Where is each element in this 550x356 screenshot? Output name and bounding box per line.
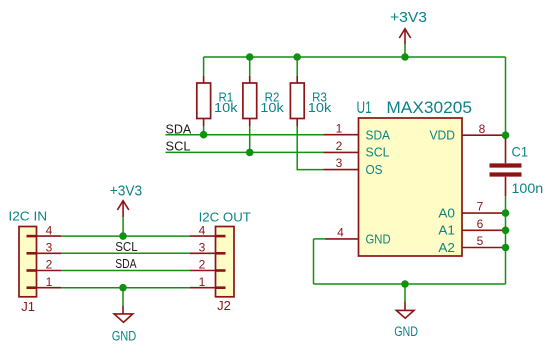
pin 7 A0 of U1 (438, 200, 505, 221)
pin 5 A2 of U1 (438, 234, 505, 255)
svg-text:C1: C1 (512, 144, 529, 160)
wire VDD top rail (204, 56, 506, 58)
connector J1 (8, 210, 47, 314)
svg-text:VDD: VDD (430, 128, 456, 142)
resistor R3 (290, 83, 332, 126)
connector J2 (199, 210, 252, 313)
svg-text:10k: 10k (214, 101, 238, 115)
power +3V3 left (110, 183, 142, 236)
svg-text:1: 1 (336, 122, 343, 136)
ground symbol left (112, 288, 137, 344)
pin 1 SDA of U1 (324, 122, 391, 143)
wire SCL (166, 151, 324, 153)
svg-text:100n: 100n (512, 180, 544, 196)
pin 4 GND of U1 (325, 226, 391, 247)
node junction A2 (502, 244, 510, 252)
pin 8 VDD of U1 (430, 122, 506, 142)
svg-text:1: 1 (46, 275, 53, 289)
svg-text:+3V3: +3V3 (110, 183, 142, 199)
node junction A0 (502, 209, 510, 217)
svg-text:A2: A2 (438, 241, 455, 255)
svg-text:U1: U1 (357, 99, 372, 117)
svg-text:A0: A0 (438, 207, 455, 221)
svg-text:6: 6 (477, 217, 484, 231)
pin 2 of J2 (190, 258, 216, 272)
wire bus 3 J1-J2 (61, 252, 190, 254)
svg-text:SCL: SCL (166, 140, 191, 154)
pin 1 of J1 (37, 275, 62, 289)
svg-text:2: 2 (46, 258, 53, 272)
node junction GND J bus (119, 284, 127, 292)
wire bus 2 J1-J2 (61, 270, 190, 272)
wire R2 top drop (249, 57, 251, 83)
svg-text:MAX30205: MAX30205 (386, 99, 472, 117)
svg-text:SDA: SDA (115, 257, 137, 271)
op-amp U1 MAX30205 body (357, 99, 473, 256)
svg-text:10k: 10k (308, 101, 332, 115)
wire bus 4 J1-J2 (61, 235, 190, 237)
node junction A1 (502, 227, 510, 235)
resistor R1 (197, 83, 239, 126)
node junction bottom GND (401, 280, 409, 288)
svg-text:4: 4 (46, 223, 53, 237)
svg-text:GND: GND (394, 324, 418, 339)
wire R3 top drop (296, 57, 298, 83)
wire SDA (166, 134, 324, 136)
svg-text:SCL: SCL (366, 146, 390, 160)
svg-text:A1: A1 (438, 224, 455, 238)
wire bus 1 J1-J2 (61, 287, 190, 289)
svg-text:7: 7 (477, 200, 484, 214)
svg-text:1: 1 (199, 275, 206, 289)
svg-text:OS: OS (366, 163, 383, 177)
pin 6 A1 of U1 (438, 217, 505, 238)
pin 2 of J1 (37, 258, 62, 272)
svg-text:GND: GND (366, 233, 391, 247)
node junction +3V3 J bus (119, 232, 127, 240)
pin 3 of J1 (37, 241, 62, 255)
wire R1 top drop (203, 57, 205, 83)
svg-text:SDA: SDA (366, 128, 391, 142)
svg-text:2: 2 (199, 258, 206, 272)
svg-text:3: 3 (199, 241, 206, 255)
wire GND pin to bottom rail (314, 239, 326, 284)
pin 3 of J2 (190, 241, 216, 255)
svg-text:J1: J1 (21, 299, 35, 314)
wire R2 bottom (249, 126, 251, 152)
node junction +3V3 top (401, 53, 409, 61)
svg-text:I2C IN: I2C IN (8, 210, 47, 224)
wire R1 bottom (203, 126, 205, 135)
svg-text:3: 3 (336, 156, 343, 170)
svg-text:8: 8 (479, 122, 486, 136)
node junction SCL/R2 (246, 149, 254, 157)
svg-text:10k: 10k (260, 101, 284, 115)
svg-text:5: 5 (477, 234, 484, 248)
wire right rail C1 to bottom (505, 196, 507, 284)
svg-text:GND: GND (112, 329, 137, 344)
svg-text:2: 2 (336, 139, 343, 153)
svg-text:4: 4 (199, 223, 206, 237)
pin 2 SCL of U1 (324, 139, 390, 160)
ground symbol right (394, 284, 418, 339)
node junction SDA/R1 (200, 131, 208, 139)
svg-text:+3V3: +3V3 (390, 10, 427, 26)
svg-text:3: 3 (46, 241, 53, 255)
wire R3 bottom to OS (297, 126, 324, 170)
svg-text:4: 4 (337, 226, 344, 240)
power +3V3 top (390, 10, 427, 57)
pin 3 OS of U1 (324, 156, 383, 177)
wire bottom rail (314, 283, 506, 285)
svg-text:SCL: SCL (115, 240, 138, 254)
wire right rail down to VDD (505, 57, 507, 135)
node junction R2 top (246, 53, 254, 61)
svg-text:J2: J2 (217, 298, 231, 313)
capacitor C1 (490, 138, 544, 196)
node junction R3 top (293, 53, 301, 61)
pin 4 of J1 (37, 223, 62, 237)
pin 4 of J2 (190, 223, 216, 237)
svg-text:I2C OUT: I2C OUT (199, 210, 252, 224)
pin 1 of J2 (190, 275, 216, 289)
node junction VDD/C1 (502, 131, 510, 139)
resistor R2 (243, 83, 285, 126)
